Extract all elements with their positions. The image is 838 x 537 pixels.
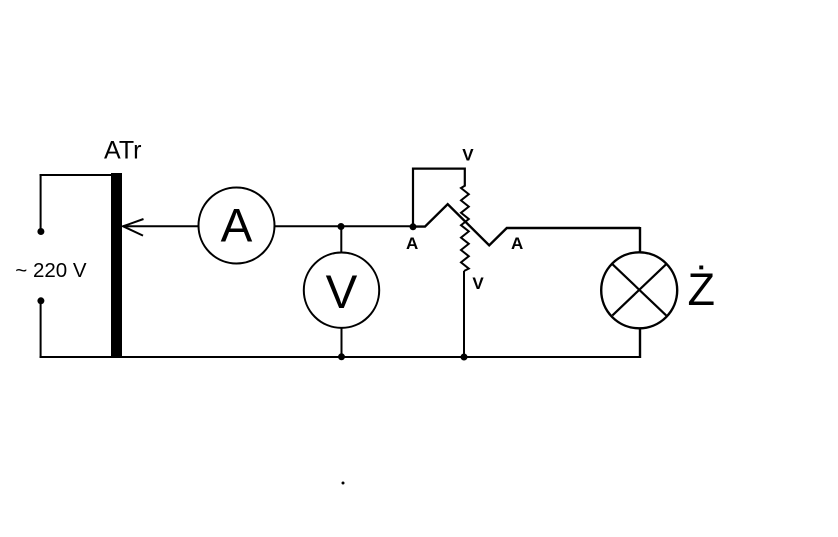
svg-text:ATr: ATr bbox=[104, 137, 142, 165]
wire lamp top lead bbox=[639, 227, 641, 253]
junction dot voltmeter top bbox=[338, 223, 345, 230]
wire top-left horizontal bbox=[40, 174, 116, 176]
wire rheostat bottom lead bbox=[463, 271, 465, 357]
rheostat wiper arm bbox=[413, 204, 640, 245]
wire bottom horizontal bbox=[40, 356, 641, 358]
lamp cross stroke 1 bbox=[612, 264, 666, 315]
svg-text:Ż: Ż bbox=[688, 264, 716, 315]
wire left vertical lower bbox=[40, 301, 42, 358]
wire lamp bottom lead bbox=[639, 328, 641, 358]
wire left vertical upper bbox=[40, 174, 42, 231]
source terminal dot upper bbox=[37, 228, 44, 235]
junction dot rheostat tap A bbox=[410, 223, 417, 230]
wire voltmeter top lead bbox=[340, 227, 342, 254]
lamp cross stroke 2 bbox=[612, 264, 666, 315]
svg-text:A: A bbox=[406, 234, 418, 253]
svg-text:V: V bbox=[472, 274, 484, 293]
ammeter A circle bbox=[199, 188, 275, 264]
autotransformer ATr winding bar bbox=[111, 173, 122, 357]
svg-text:V: V bbox=[326, 266, 358, 319]
wire arrow to ATr wiper bbox=[123, 225, 199, 227]
svg-text:~ 220 V: ~ 220 V bbox=[15, 259, 87, 282]
svg-text:V: V bbox=[462, 146, 474, 165]
wire ammeter to rheostat bbox=[275, 225, 414, 227]
rheostat resistor zigzag bbox=[461, 186, 469, 271]
svg-text:A: A bbox=[221, 200, 253, 253]
svg-text:A: A bbox=[511, 234, 523, 253]
wire voltmeter bottom lead bbox=[341, 328, 343, 358]
arrowhead at ATr bbox=[123, 219, 144, 236]
stray dot bbox=[342, 482, 345, 485]
lamp circle bbox=[601, 252, 677, 328]
voltmeter V circle bbox=[304, 253, 379, 328]
junction dot rheostat bottom bbox=[461, 354, 468, 361]
wire rheostat top V loop bbox=[413, 169, 465, 227]
junction dot voltmeter bottom bbox=[338, 353, 345, 360]
source terminal dot lower bbox=[37, 297, 44, 304]
